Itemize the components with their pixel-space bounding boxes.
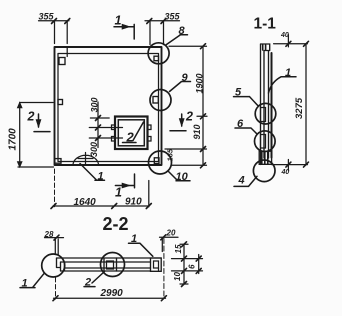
svg-text:15: 15: [174, 244, 183, 253]
svg-text:40: 40: [281, 169, 290, 176]
svg-text:2990: 2990: [100, 288, 124, 299]
svg-text:6: 6: [237, 118, 244, 130]
svg-text:910: 910: [192, 124, 202, 139]
svg-text:1: 1: [98, 171, 104, 183]
svg-text:8: 8: [179, 25, 186, 37]
svg-text:1: 1: [131, 233, 137, 245]
svg-text:165: 165: [166, 148, 175, 161]
svg-text:300: 300: [89, 142, 99, 157]
svg-text:1900: 1900: [195, 73, 205, 93]
svg-text:6: 6: [188, 264, 197, 269]
svg-text:10: 10: [173, 272, 182, 281]
svg-text:28: 28: [44, 230, 54, 239]
svg-text:2: 2: [84, 276, 91, 288]
svg-text:2: 2: [27, 110, 35, 124]
svg-text:20: 20: [166, 228, 176, 237]
svg-text:2: 2: [185, 110, 193, 124]
svg-text:1: 1: [285, 67, 291, 79]
svg-text:355: 355: [39, 12, 55, 22]
svg-text:40: 40: [280, 32, 289, 39]
svg-text:1700: 1700: [8, 128, 19, 151]
svg-text:910: 910: [125, 197, 142, 208]
svg-text:1640: 1640: [74, 197, 97, 208]
svg-text:10: 10: [176, 171, 189, 183]
svg-text:1: 1: [115, 186, 122, 200]
svg-text:355: 355: [165, 12, 181, 22]
svg-text:2-2: 2-2: [103, 214, 129, 234]
svg-text:2: 2: [126, 130, 135, 145]
svg-text:300: 300: [90, 97, 100, 112]
svg-text:1: 1: [115, 14, 122, 28]
svg-text:4: 4: [238, 175, 245, 187]
svg-text:1-1: 1-1: [254, 16, 277, 33]
svg-text:3275: 3275: [294, 97, 305, 119]
svg-text:9: 9: [182, 72, 189, 84]
svg-text:5: 5: [235, 87, 242, 99]
svg-text:1: 1: [22, 277, 28, 289]
